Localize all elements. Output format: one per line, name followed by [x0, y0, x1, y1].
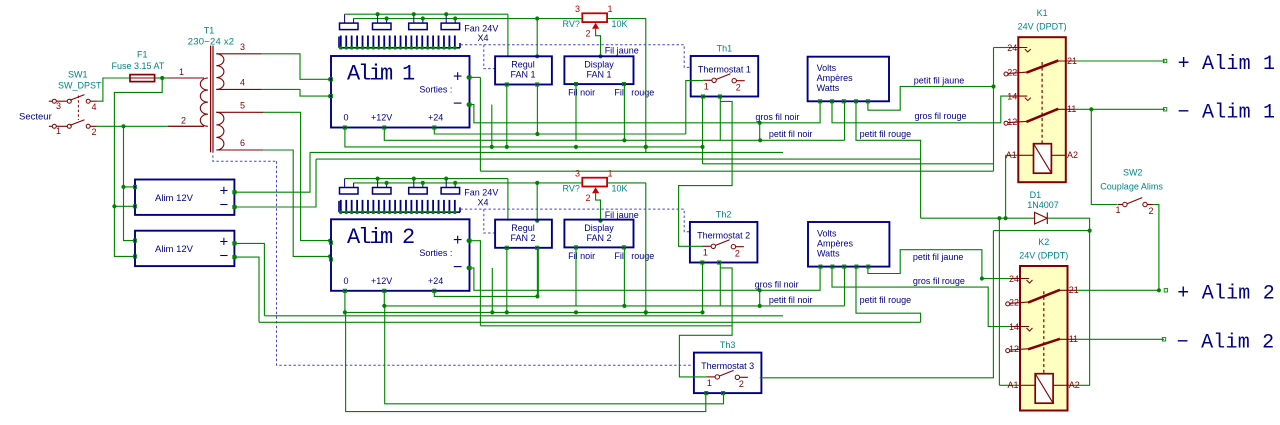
svg-text:Ampères: Ampères: [817, 239, 854, 249]
svg-text:12: 12: [1007, 117, 1017, 127]
svg-text:gros fil noir: gros fil noir: [755, 280, 799, 290]
svg-text:Fil jaune: Fil jaune: [605, 210, 639, 220]
svg-text:2: 2: [181, 116, 186, 126]
svg-text:SW_DPST: SW_DPST: [58, 81, 102, 91]
svg-text:Fil: Fil: [614, 88, 624, 98]
svg-text:petit fil noir: petit fil noir: [769, 295, 813, 305]
svg-text:−: −: [220, 197, 229, 214]
svg-text:F1: F1: [137, 50, 148, 60]
svg-text:Thermostat 1: Thermostat 1: [698, 65, 751, 75]
svg-text:petit fil rouge: petit fil rouge: [860, 295, 912, 305]
svg-text:2: 2: [92, 127, 97, 137]
svg-text:+24: +24: [428, 276, 443, 286]
svg-text:Alim 2: Alim 2: [347, 225, 414, 250]
svg-text:petit fil rouge: petit fil rouge: [860, 129, 912, 139]
svg-text:12: 12: [1009, 344, 1019, 354]
svg-text:Fan 24V: Fan 24V: [464, 188, 498, 198]
svg-text:− Alim 2: − Alim 2: [1177, 331, 1275, 354]
svg-text:Thermostat 2: Thermostat 2: [697, 231, 750, 241]
svg-text:− Alim 1: − Alim 1: [1178, 101, 1276, 124]
svg-text:22: 22: [1009, 298, 1019, 308]
svg-text:3: 3: [575, 169, 580, 179]
svg-text:SW1: SW1: [68, 70, 88, 80]
svg-text:14: 14: [1007, 92, 1017, 102]
svg-text:petit fil jaune: petit fil jaune: [914, 76, 965, 86]
svg-text:Secteur: Secteur: [19, 112, 52, 123]
svg-text:Thermostat 3: Thermostat 3: [701, 361, 754, 371]
svg-text:5: 5: [240, 101, 245, 111]
svg-text:2: 2: [586, 28, 591, 38]
svg-text:rouge: rouge: [631, 88, 654, 98]
svg-text:A2: A2: [1069, 380, 1080, 390]
svg-text:3: 3: [240, 42, 245, 52]
svg-text:Fuse 3.15 AT: Fuse 3.15 AT: [112, 61, 165, 71]
svg-text:Th1: Th1: [717, 44, 733, 54]
svg-text:Volts: Volts: [817, 229, 837, 239]
svg-text:gros fil rouge: gros fil rouge: [913, 276, 965, 286]
svg-text:3: 3: [56, 101, 61, 111]
svg-text:2: 2: [736, 83, 741, 93]
svg-text:Regul: Regul: [511, 223, 535, 233]
svg-text:K1: K1: [1037, 8, 1048, 18]
svg-text:Display: Display: [584, 223, 614, 233]
svg-text:2: 2: [735, 249, 740, 259]
svg-text:Ampères: Ampères: [817, 73, 854, 83]
svg-text:1: 1: [703, 248, 708, 258]
svg-text:Fil jaune: Fil jaune: [605, 46, 639, 56]
svg-text:FAN 1: FAN 1: [510, 70, 535, 80]
svg-text:D1: D1: [1030, 190, 1042, 200]
svg-text:−: −: [220, 248, 229, 265]
svg-text:Volts: Volts: [817, 63, 837, 73]
svg-text:1: 1: [608, 4, 613, 14]
svg-text:+: +: [453, 232, 462, 249]
svg-text:1: 1: [56, 126, 61, 136]
svg-text:1: 1: [707, 378, 712, 388]
svg-text:Alim 1: Alim 1: [347, 62, 415, 87]
svg-text:Watts: Watts: [817, 249, 840, 259]
svg-text:0: 0: [344, 113, 349, 123]
svg-text:24V (DPDT): 24V (DPDT): [1018, 22, 1067, 32]
svg-text:Fil noir: Fil noir: [568, 88, 595, 98]
svg-text:Sorties :: Sorties :: [419, 248, 452, 258]
svg-text:Watts: Watts: [817, 83, 840, 93]
svg-text:Alim 12V: Alim 12V: [155, 193, 194, 204]
svg-text:RV?: RV?: [563, 183, 580, 193]
svg-text:4: 4: [240, 78, 245, 88]
svg-text:3: 3: [575, 4, 580, 14]
svg-text:petit fil jaune: petit fil jaune: [913, 252, 964, 262]
svg-text:A2: A2: [1067, 150, 1078, 160]
svg-text:+: +: [453, 69, 462, 86]
svg-text:14: 14: [1009, 322, 1019, 332]
svg-text:Display: Display: [584, 60, 614, 70]
svg-text:24: 24: [1009, 274, 1019, 284]
svg-text:+12V: +12V: [371, 113, 392, 123]
svg-text:2: 2: [586, 193, 591, 203]
svg-text:10K: 10K: [612, 183, 628, 193]
svg-text:FAN 2: FAN 2: [510, 233, 535, 243]
svg-text:X4: X4: [478, 197, 489, 207]
svg-text:24V (DPDT): 24V (DPDT): [1019, 250, 1068, 260]
svg-text:0: 0: [344, 276, 349, 286]
svg-text:1N4007: 1N4007: [1027, 200, 1059, 210]
svg-text:Fil: Fil: [614, 251, 624, 261]
svg-text:6: 6: [240, 138, 245, 148]
svg-text:Regul: Regul: [511, 60, 535, 70]
svg-text:Fil noir: Fil noir: [568, 251, 595, 261]
svg-text:−: −: [453, 259, 462, 276]
svg-text:10K: 10K: [612, 19, 628, 29]
svg-text:+ Alim 2: + Alim 2: [1177, 282, 1275, 305]
svg-text:2: 2: [1149, 206, 1154, 216]
svg-text:1: 1: [704, 82, 709, 92]
svg-text:Sorties :: Sorties :: [419, 85, 452, 95]
svg-text:A1: A1: [1006, 150, 1017, 160]
svg-text:1: 1: [1116, 205, 1121, 215]
svg-text:K2: K2: [1038, 237, 1049, 247]
svg-text:Fan 24V: Fan 24V: [464, 23, 498, 33]
svg-text:2: 2: [739, 379, 744, 389]
svg-text:Alim 12V: Alim 12V: [155, 244, 194, 255]
svg-text:1: 1: [179, 67, 184, 77]
svg-text:Th3: Th3: [720, 340, 736, 350]
svg-text:+12V: +12V: [371, 276, 392, 286]
svg-text:FAN 2: FAN 2: [586, 233, 611, 243]
svg-text:Couplage Alims: Couplage Alims: [1100, 181, 1163, 191]
svg-text:+ Alim 1: + Alim 1: [1178, 53, 1276, 76]
svg-text:22: 22: [1007, 68, 1017, 78]
svg-text:A1: A1: [1007, 380, 1018, 390]
svg-text:T1: T1: [204, 26, 215, 36]
svg-text:−: −: [453, 96, 462, 113]
svg-text:Th2: Th2: [716, 210, 732, 220]
svg-text:rouge: rouge: [631, 251, 654, 261]
svg-text:RV?: RV?: [563, 19, 580, 29]
svg-text:+24: +24: [428, 113, 443, 123]
svg-text:FAN 1: FAN 1: [586, 70, 611, 80]
svg-text:SW2: SW2: [1123, 168, 1143, 178]
svg-text:4: 4: [92, 102, 97, 112]
svg-text:gros fil noir: gros fil noir: [755, 112, 799, 122]
svg-text:petit fil noir: petit fil noir: [769, 129, 813, 139]
svg-text:1: 1: [608, 169, 613, 179]
svg-text:gros fil rouge: gros fil rouge: [915, 111, 967, 121]
svg-text:X4: X4: [478, 33, 489, 43]
